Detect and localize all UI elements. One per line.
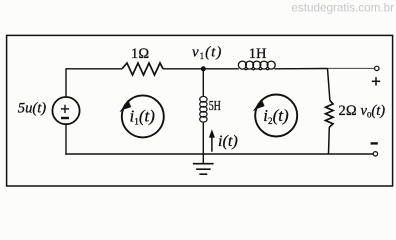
svg-text:i1(t): i1(t) xyxy=(130,106,156,126)
svg-text:5u(t): 5u(t) xyxy=(18,101,47,117)
wire coil 5H to bottom rail xyxy=(202,122,204,154)
inductor L 1H coil xyxy=(238,61,275,70)
bottom rail wire xyxy=(65,153,373,155)
wire resistor to node v1 xyxy=(163,68,239,70)
wire junction to output terminal xyxy=(328,67,375,69)
mesh current circle i1 xyxy=(122,95,164,137)
wire junction down to resistor 2ohm xyxy=(328,69,330,101)
svg-text:1Ω: 1Ω xyxy=(131,46,149,62)
ground stem xyxy=(202,154,204,164)
svg-text:1H: 1H xyxy=(249,46,267,62)
inductor L 5H vertical coil xyxy=(200,96,207,122)
svg-text:2Ω v0(t): 2Ω v0(t) xyxy=(339,103,386,120)
mesh i2 arrowhead xyxy=(253,99,265,111)
svg-text:i2(t): i2(t) xyxy=(263,106,289,126)
current arrow i(t) xyxy=(211,136,213,152)
ground bars xyxy=(193,164,214,175)
output terminal bottom (open circle) xyxy=(373,152,377,156)
middle branch wire from node v1 xyxy=(202,69,204,97)
voltage source circle 5u(t) xyxy=(52,97,79,124)
node v1 junction dot xyxy=(201,66,206,71)
mesh current circle i2 xyxy=(255,95,297,137)
source plus xyxy=(61,105,69,113)
border frame xyxy=(7,35,393,186)
wire resistor 2ohm to bottom rail xyxy=(328,127,331,154)
wire source to bottom rail xyxy=(65,124,67,155)
output terminal top (open circle) xyxy=(375,66,379,70)
plus sign output xyxy=(372,77,380,85)
mesh i1 arrowhead xyxy=(119,100,131,112)
svg-text:i(t): i(t) xyxy=(218,132,238,150)
resistor R 2ohm vertical zigzag xyxy=(326,100,334,127)
wire top-left segment xyxy=(66,69,122,98)
svg-text:5H: 5H xyxy=(209,99,221,114)
source minus xyxy=(61,117,69,119)
minus sign output xyxy=(371,142,378,144)
resistor R 1ohm zigzag xyxy=(122,63,163,75)
svg-text:v1(t): v1(t) xyxy=(192,45,222,62)
svg-text:estudegratis.com.br: estudegratis.com.br xyxy=(291,2,394,15)
wire coil to right junction xyxy=(274,68,327,70)
